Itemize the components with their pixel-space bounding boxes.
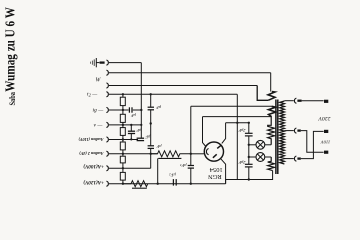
wire lamp LA2 right: [265, 156, 271, 158]
svg-text:μF3: μF3: [180, 163, 187, 168]
winding W1 zigzag: [268, 92, 275, 101]
wire HT loop top: [191, 105, 272, 107]
socket S2: [294, 128, 296, 133]
resistor R8 underline: [132, 187, 147, 189]
lamp LA2: [256, 153, 265, 162]
resistor R7 zigzag: [151, 151, 191, 157]
wire T1 to ground bus: [109, 62, 141, 64]
wire T5 rail: [109, 109, 129, 111]
wire anode1: [203, 117, 206, 146]
wire mid tap crossover: [301, 131, 324, 153]
wire bottom tap crossover: [301, 131, 324, 158]
svg-text:Audion (110V): Audion (110V): [78, 137, 105, 142]
wire T7 rail: [109, 139, 138, 141]
wire ground bus vertical: [140, 63, 142, 139]
svg-text:+A(100V): +A(100V): [83, 163, 104, 170]
svg-text:μF: μF: [131, 113, 136, 118]
svg-text:Audion 2 (4V): Audion 2 (4V): [79, 151, 105, 156]
wire T10 rail: [109, 183, 131, 185]
wire T9 rail: [109, 167, 151, 169]
capacitor C5: [148, 146, 154, 149]
svg-text:μF: μF: [145, 135, 150, 140]
capacitor C8: [245, 133, 253, 136]
lamp LA1: [256, 140, 265, 149]
wire lamp LA2 left: [249, 156, 256, 158]
resistor R7 underline: [158, 157, 181, 159]
title Saba Wumag zu U 6 W: [2, 7, 17, 106]
svg-text:μF: μF: [136, 128, 141, 133]
wire R7 to tube: [191, 153, 205, 155]
capacitor C1: [129, 107, 132, 112]
wire tap mid: [284, 130, 293, 132]
socket S1: [294, 98, 296, 103]
resistor R1: [120, 97, 125, 105]
wire anode1 rail: [203, 116, 272, 118]
wire T8 rail: [109, 153, 158, 155]
tube V1 RGN1054: [204, 142, 223, 161]
capacitor C7: [173, 179, 176, 186]
capacitor C6: [188, 166, 194, 169]
svg-text:2μF: 2μF: [238, 128, 245, 133]
filament cap bus: [248, 123, 250, 180]
wire tap bottom: [284, 158, 293, 160]
wire T4 drop: [236, 94, 238, 179]
resistor R2: [120, 114, 125, 122]
socket T9: [106, 166, 108, 171]
svg-text:RGN: RGN: [208, 173, 222, 180]
socket T2: [106, 70, 108, 75]
socket T4: [106, 92, 108, 97]
bottom rail left: [123, 183, 226, 185]
svg-text:v —: v —: [94, 123, 103, 129]
winding W4 primary: [280, 101, 285, 164]
socket T5: [106, 107, 108, 112]
svg-text:μF: μF: [156, 144, 161, 149]
svg-text:+A(120V): +A(120V): [83, 179, 104, 186]
wire T4 rail: [109, 93, 237, 95]
socket T6: [106, 122, 108, 127]
svg-text:ig —: ig —: [93, 108, 104, 114]
resistor R10 zigzag vertical: [268, 157, 275, 171]
resistor R4: [120, 142, 125, 150]
wire T2 rail: [109, 72, 271, 74]
wire HT left vertical: [190, 106, 192, 183]
wire lamp LA1 right: [265, 144, 271, 146]
wire T6 rail: [109, 124, 141, 126]
resistor R3: [120, 128, 125, 136]
bottom rail right: [226, 171, 273, 184]
svg-text:μF: μF: [156, 105, 161, 110]
capacitor C9: [245, 164, 253, 167]
resistor R8 zigzag: [131, 181, 148, 187]
socket T3: [106, 83, 108, 88]
resistor R5: [120, 156, 125, 163]
svg-text:1054: 1054: [209, 166, 223, 173]
wire filament rail: [226, 122, 249, 124]
terminal lower: [324, 151, 328, 154]
resistor chain bus: [122, 94, 124, 183]
bias bus vertical: [150, 94, 152, 168]
socket S3: [294, 156, 296, 161]
tube electrode strokes: [206, 145, 221, 158]
resistor R6: [120, 172, 125, 180]
resistor R9 zigzag vertical: [268, 117, 275, 145]
plug S1: [297, 100, 301, 102]
wire divider tap: [157, 158, 159, 183]
winding W2 zigzag: [269, 106, 276, 116]
plug P1: [100, 61, 105, 63]
wire T3 rail: [109, 85, 257, 87]
terminal 110V: [324, 130, 328, 133]
socket T8: [106, 151, 108, 156]
capacitor C2: [128, 131, 135, 133]
socket T7: [106, 137, 108, 142]
wire tap 220V top: [284, 100, 293, 102]
svg-text:t2 —: t2 —: [87, 92, 97, 98]
wire C2 stubs: [130, 125, 132, 131]
transformer core: [276, 100, 278, 175]
terminal 220V: [324, 100, 328, 103]
socket T1: [106, 60, 108, 65]
svg-text:Wumag zu U 6 W: Wumag zu U 6 W: [2, 7, 17, 92]
wire to terminal 220V: [302, 100, 324, 102]
ground: [91, 58, 100, 67]
svg-text:Saba: Saba: [8, 92, 17, 106]
svg-text:110V: 110V: [320, 139, 331, 144]
svg-text:220V: 220V: [317, 115, 331, 121]
capacitor C3: [137, 138, 145, 140]
socket T10: [106, 181, 108, 186]
svg-text:2μF: 2μF: [238, 160, 245, 165]
wire lamp LA1 left: [249, 144, 256, 146]
wire tube cathode down: [221, 159, 226, 184]
svg-text:μF2: μF2: [169, 173, 176, 178]
plug S2: [297, 129, 300, 131]
wire filament top: [222, 123, 226, 144]
capacitor C4: [148, 107, 154, 110]
plug S3: [297, 157, 300, 159]
wire T3 step to winding: [257, 86, 268, 101]
wire C1 to ground bus: [133, 109, 142, 111]
wire T2 drop to winding: [270, 73, 272, 92]
junction dots: [122, 93, 250, 185]
